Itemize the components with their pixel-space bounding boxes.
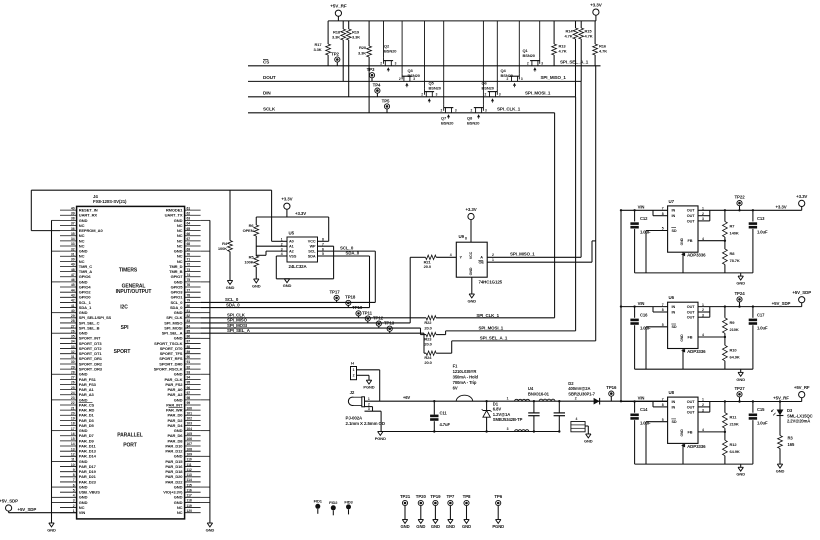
- svg-text:R8: R8: [730, 251, 736, 256]
- svg-text:28: 28: [71, 319, 75, 323]
- svg-text:43: 43: [71, 293, 75, 297]
- svg-text:3: 3: [368, 407, 370, 411]
- svg-text:29: 29: [71, 314, 75, 318]
- svg-text:100: 100: [187, 406, 193, 410]
- svg-text:33: 33: [71, 242, 75, 246]
- svg-text:119: 119: [187, 504, 192, 508]
- svg-text:3.3K: 3.3K: [313, 47, 321, 52]
- svg-text:SDA_0: SDA_0: [346, 251, 360, 256]
- svg-text:36: 36: [71, 227, 75, 231]
- svg-text:TP17: TP17: [329, 290, 340, 295]
- svg-text:109: 109: [187, 452, 193, 456]
- svg-text:23: 23: [71, 396, 75, 400]
- svg-text:32: 32: [71, 350, 75, 354]
- svg-text:4.7K: 4.7K: [559, 49, 567, 54]
- svg-text:C16: C16: [640, 312, 648, 317]
- svg-text:2: 2: [527, 62, 529, 66]
- svg-text:PJ-002A: PJ-002A: [346, 416, 364, 421]
- svg-text:J2: J2: [350, 390, 355, 395]
- svg-text:3.3K: 3.3K: [332, 35, 340, 40]
- svg-text:TP22: TP22: [734, 195, 745, 200]
- svg-text:21: 21: [71, 406, 75, 410]
- svg-text:R3: R3: [788, 436, 794, 441]
- svg-text:27: 27: [71, 324, 75, 328]
- svg-text:FB: FB: [688, 239, 693, 243]
- svg-text:BSN20: BSN20: [501, 73, 514, 78]
- svg-text:SPI_MOSI_1: SPI_MOSI_1: [479, 325, 504, 330]
- svg-text:11: 11: [71, 458, 75, 462]
- svg-text:1.0uF: 1.0uF: [640, 421, 651, 426]
- svg-text:44: 44: [71, 288, 75, 292]
- svg-text:2: 2: [492, 253, 494, 257]
- svg-text:GND: GND: [462, 524, 471, 529]
- svg-text:12: 12: [71, 452, 75, 456]
- svg-text:111: 111: [187, 463, 192, 467]
- svg-text:40: 40: [71, 206, 75, 210]
- svg-text:I2C: I2C: [120, 305, 128, 311]
- svg-text:3: 3: [499, 93, 501, 97]
- svg-text:WP: WP: [310, 245, 316, 249]
- svg-text:3.3K: 3.3K: [358, 50, 366, 55]
- svg-text:+3.3V: +3.3V: [295, 211, 306, 216]
- svg-text:4: 4: [450, 253, 452, 257]
- svg-text:NC: NC: [177, 510, 183, 515]
- svg-text:OUT: OUT: [687, 305, 695, 309]
- svg-text:10: 10: [71, 463, 75, 467]
- svg-text:GND: GND: [468, 298, 477, 303]
- svg-text:GND: GND: [431, 524, 440, 529]
- svg-text:GND: GND: [736, 377, 745, 382]
- svg-text:BSN20: BSN20: [467, 121, 480, 126]
- svg-text:8: 8: [73, 473, 75, 477]
- svg-text:SPI: SPI: [121, 325, 129, 331]
- svg-text:BSN20: BSN20: [408, 73, 421, 78]
- svg-text:2: 2: [73, 504, 75, 508]
- svg-text:U9: U9: [459, 234, 465, 239]
- svg-text:7: 7: [73, 478, 75, 482]
- svg-text:SCLK: SCLK: [263, 107, 276, 112]
- svg-text:39: 39: [71, 211, 75, 215]
- svg-text:89: 89: [187, 350, 191, 354]
- svg-text:GND: GND: [252, 283, 261, 288]
- svg-text:3.3K: 3.3K: [352, 35, 360, 40]
- svg-text:GND: GND: [736, 472, 745, 477]
- svg-text:37: 37: [71, 222, 75, 226]
- svg-text:1.0uF: 1.0uF: [640, 326, 651, 331]
- svg-text:106: 106: [187, 437, 193, 441]
- svg-text:TP2: TP2: [331, 52, 339, 57]
- svg-text:110: 110: [187, 458, 192, 462]
- svg-text:ADP3336: ADP3336: [687, 444, 706, 449]
- svg-text:IN: IN: [672, 214, 676, 218]
- svg-text:71: 71: [187, 258, 191, 262]
- svg-text:R11: R11: [730, 415, 738, 420]
- svg-text:VCC: VCC: [469, 251, 473, 259]
- svg-text:95: 95: [187, 381, 191, 385]
- svg-text:D3: D3: [787, 408, 793, 413]
- svg-text:2: 2: [471, 109, 473, 113]
- svg-text:FID2: FID2: [329, 500, 338, 505]
- svg-text:SPI_SEL_A: SPI_SEL_A: [227, 328, 251, 333]
- svg-text:SPI_SEL_A_1: SPI_SEL_A_1: [560, 59, 589, 64]
- svg-text:1.0uF: 1.0uF: [757, 421, 768, 426]
- svg-text:TP5: TP5: [382, 98, 390, 103]
- svg-text:74HC1G125: 74HC1G125: [479, 280, 503, 285]
- svg-text:65: 65: [187, 227, 191, 231]
- svg-text:2: 2: [399, 77, 401, 81]
- svg-text:D2: D2: [568, 381, 574, 386]
- svg-text:TP3: TP3: [367, 67, 375, 72]
- svg-text:VIN: VIN: [79, 510, 86, 515]
- svg-text:117: 117: [187, 494, 192, 498]
- svg-text:+5V_SDP: +5V_SDP: [792, 290, 811, 295]
- svg-text:SDA: SDA: [308, 254, 316, 258]
- svg-text:62: 62: [187, 211, 191, 215]
- svg-text:DIN: DIN: [263, 91, 271, 96]
- svg-text:D1: D1: [493, 401, 499, 406]
- svg-text:84: 84: [187, 324, 191, 328]
- svg-text:SCL: SCL: [308, 250, 316, 254]
- svg-text:41: 41: [71, 304, 75, 308]
- svg-text:SPI_CLK_1: SPI_CLK_1: [497, 106, 521, 111]
- svg-text:3: 3: [521, 77, 523, 81]
- svg-text:U6: U6: [669, 295, 675, 300]
- svg-text:PGND: PGND: [363, 385, 374, 390]
- svg-text:48: 48: [71, 268, 75, 272]
- svg-text:29: 29: [71, 365, 75, 369]
- svg-text:91: 91: [187, 360, 191, 364]
- svg-text:20.0: 20.0: [424, 264, 432, 269]
- svg-text:13: 13: [71, 447, 75, 451]
- svg-text:15: 15: [71, 437, 75, 441]
- svg-text:70: 70: [187, 252, 191, 256]
- svg-text:1.0uF: 1.0uF: [757, 326, 768, 331]
- svg-text:27: 27: [71, 376, 75, 380]
- svg-text:FB: FB: [688, 335, 693, 339]
- svg-text:32: 32: [71, 247, 75, 251]
- svg-text:2: 2: [440, 109, 442, 113]
- svg-text:GND: GND: [226, 285, 235, 290]
- svg-text:1: 1: [507, 397, 509, 401]
- svg-text:64: 64: [187, 222, 191, 226]
- svg-text:1: 1: [368, 397, 370, 401]
- svg-text:GND: GND: [776, 469, 785, 474]
- svg-text:FX8-120S-SV(21): FX8-120S-SV(21): [93, 199, 127, 204]
- svg-text:+3.3V: +3.3V: [796, 194, 807, 199]
- svg-text:BSN20: BSN20: [523, 53, 536, 58]
- svg-text:2: 2: [421, 93, 423, 97]
- svg-text:2: 2: [575, 397, 577, 401]
- svg-text:TIMERS: TIMERS: [119, 268, 138, 274]
- svg-text:IN: IN: [672, 209, 676, 213]
- svg-text:4: 4: [576, 417, 578, 421]
- svg-text:34: 34: [71, 340, 75, 344]
- svg-text:107: 107: [187, 442, 193, 446]
- svg-text:2.1mm X 2.5mm OD: 2.1mm X 2.5mm OD: [346, 421, 385, 426]
- svg-text:OUT: OUT: [687, 214, 695, 218]
- svg-text:17: 17: [71, 427, 75, 431]
- svg-text:3: 3: [507, 427, 509, 431]
- svg-text:SBR2U30P1-7: SBR2U30P1-7: [568, 392, 595, 397]
- svg-text:A: A: [480, 256, 483, 260]
- svg-text:47: 47: [71, 273, 75, 277]
- svg-text:5: 5: [73, 488, 75, 492]
- svg-text:61: 61: [187, 206, 191, 210]
- svg-text:49: 49: [71, 263, 75, 267]
- svg-text:TP24: TP24: [734, 291, 745, 296]
- svg-text:OUT: OUT: [687, 219, 695, 223]
- svg-text:3: 3: [541, 62, 543, 66]
- svg-text:115: 115: [187, 483, 192, 487]
- svg-text:GND: GND: [680, 334, 684, 342]
- svg-text:24: 24: [71, 391, 75, 395]
- svg-text:+3.3V: +3.3V: [590, 3, 603, 8]
- svg-text:SD: SD: [672, 325, 677, 329]
- svg-text:20.0: 20.0: [424, 342, 432, 347]
- svg-text:4.7uF: 4.7uF: [440, 422, 451, 427]
- svg-text:GND: GND: [206, 527, 215, 532]
- svg-text:19: 19: [71, 417, 75, 421]
- svg-text:700mA - Trip: 700mA - Trip: [453, 380, 477, 385]
- svg-text:SPI_MOSI_1: SPI_MOSI_1: [525, 90, 551, 95]
- svg-text:OUT: OUT: [687, 316, 695, 320]
- svg-text:VCC: VCC: [308, 240, 316, 244]
- svg-text:69: 69: [187, 247, 191, 251]
- svg-text:120: 120: [187, 509, 193, 513]
- svg-text:83: 83: [187, 319, 191, 323]
- svg-text:46: 46: [71, 278, 75, 282]
- svg-text:TP18: TP18: [345, 295, 356, 300]
- svg-text:C17: C17: [757, 312, 765, 317]
- svg-text:TP8: TP8: [463, 494, 471, 499]
- svg-text:+5V_RF: +5V_RF: [773, 396, 789, 401]
- svg-text:+5V_SDP: +5V_SDP: [0, 498, 18, 503]
- svg-text:A1: A1: [289, 245, 294, 249]
- svg-text:33: 33: [71, 345, 75, 349]
- svg-text:1.0uF: 1.0uF: [640, 229, 651, 234]
- svg-text:40: 40: [71, 309, 75, 313]
- svg-text:BSN20: BSN20: [429, 86, 442, 91]
- svg-text:R7: R7: [730, 224, 736, 229]
- svg-text:TP11: TP11: [362, 310, 373, 315]
- svg-text:BSN20: BSN20: [482, 86, 495, 91]
- svg-text:3: 3: [73, 499, 75, 503]
- svg-text:31: 31: [71, 355, 75, 359]
- svg-text:16: 16: [71, 432, 75, 436]
- svg-text:FB: FB: [688, 430, 693, 434]
- svg-text:104: 104: [187, 427, 193, 431]
- svg-text:94: 94: [187, 376, 191, 380]
- svg-text:GND: GND: [446, 524, 455, 529]
- svg-text:90: 90: [187, 355, 191, 359]
- svg-text:2: 2: [353, 374, 355, 378]
- svg-text:64.9K: 64.9K: [730, 449, 740, 454]
- svg-text:C15: C15: [757, 407, 765, 412]
- svg-text:87: 87: [187, 340, 191, 344]
- svg-text:U8: U8: [669, 390, 675, 395]
- svg-text:Y: Y: [460, 256, 463, 260]
- svg-text:9: 9: [73, 468, 75, 472]
- svg-text:210K: 210K: [730, 327, 739, 332]
- svg-text:CS: CS: [263, 60, 269, 65]
- svg-text:1210L035YR: 1210L035YR: [453, 369, 477, 374]
- svg-text:GND: GND: [584, 438, 593, 443]
- svg-text:45: 45: [71, 283, 75, 287]
- svg-text:C14: C14: [640, 407, 648, 412]
- svg-text:86: 86: [187, 335, 191, 339]
- svg-text:A2: A2: [289, 250, 294, 254]
- svg-text:SMBJ5342B-TP: SMBJ5342B-TP: [493, 417, 523, 422]
- svg-text:U4: U4: [528, 386, 534, 391]
- svg-text:+6V: +6V: [403, 395, 411, 400]
- svg-text:76: 76: [187, 283, 191, 287]
- svg-text:114: 114: [187, 478, 192, 482]
- svg-text:SPI_SEL_A_1: SPI_SEL_A_1: [480, 336, 508, 341]
- svg-text:U7: U7: [669, 199, 675, 204]
- svg-text:OUT: OUT: [687, 209, 695, 213]
- svg-text:42: 42: [71, 299, 75, 303]
- svg-text:U5: U5: [289, 231, 295, 236]
- svg-text:4.7K: 4.7K: [564, 34, 572, 39]
- svg-text:93: 93: [187, 370, 191, 374]
- svg-text:TP6: TP6: [494, 494, 502, 499]
- svg-text:66: 66: [187, 232, 191, 236]
- svg-text:4.7K: 4.7K: [585, 34, 593, 39]
- svg-text:80: 80: [187, 304, 191, 308]
- svg-text:35: 35: [71, 335, 75, 339]
- svg-text:IN: IN: [672, 400, 676, 404]
- svg-text:OPEN: OPEN: [243, 228, 254, 233]
- svg-text:108: 108: [187, 447, 193, 451]
- svg-text:VIN: VIN: [638, 205, 645, 210]
- svg-text:18: 18: [71, 422, 75, 426]
- svg-text:85: 85: [187, 329, 191, 333]
- svg-text:4: 4: [73, 494, 75, 498]
- svg-text:OUT: OUT: [687, 405, 695, 409]
- svg-text:73: 73: [187, 268, 191, 272]
- svg-text:TP21: TP21: [400, 494, 411, 499]
- svg-text:26: 26: [71, 329, 75, 333]
- svg-text:GND: GND: [469, 267, 473, 275]
- svg-text:VSS: VSS: [289, 254, 297, 258]
- svg-text:R10: R10: [730, 347, 738, 352]
- svg-text:R9: R9: [730, 320, 736, 325]
- svg-text:GND: GND: [680, 237, 684, 245]
- svg-text:+5V_RF: +5V_RF: [330, 4, 347, 9]
- svg-text:INPUT/OUTPUT: INPUT/OUTPUT: [116, 289, 152, 295]
- svg-text:SPORT: SPORT: [114, 349, 131, 355]
- svg-text:TP7: TP7: [447, 494, 455, 499]
- svg-text:81: 81: [187, 309, 191, 313]
- svg-text:165: 165: [788, 442, 795, 447]
- svg-text:1: 1: [492, 258, 494, 262]
- svg-text:20.0: 20.0: [424, 360, 432, 365]
- svg-text:75: 75: [187, 278, 191, 282]
- svg-text:BSN20: BSN20: [441, 121, 454, 126]
- svg-text:+5V_SDP: +5V_SDP: [18, 507, 37, 512]
- svg-text:VIN: VIN: [638, 301, 645, 306]
- svg-text:IN: IN: [672, 310, 676, 314]
- svg-text:GND: GND: [400, 524, 409, 529]
- svg-text:C11: C11: [440, 410, 448, 415]
- svg-text:FID3: FID3: [344, 499, 353, 504]
- svg-text:F1: F1: [453, 363, 458, 368]
- svg-text:2: 2: [368, 402, 370, 406]
- svg-text:24LC32A: 24LC32A: [289, 264, 308, 269]
- svg-text:74: 74: [187, 273, 191, 277]
- svg-text:88: 88: [187, 345, 191, 349]
- svg-text:22: 22: [71, 401, 75, 405]
- svg-text:64.9K: 64.9K: [730, 354, 740, 359]
- svg-text:SD: SD: [672, 420, 677, 424]
- svg-text:SML-LX15QC: SML-LX15QC: [787, 413, 813, 418]
- svg-text:2: 2: [380, 62, 382, 66]
- svg-text:101: 101: [187, 411, 193, 415]
- svg-text:TP19: TP19: [430, 494, 441, 499]
- svg-text:GND: GND: [680, 429, 684, 437]
- svg-text:3: 3: [395, 62, 397, 66]
- svg-text:FID1: FID1: [314, 499, 323, 504]
- svg-text:20.0: 20.0: [424, 325, 432, 330]
- svg-text:SDA_0: SDA_0: [226, 302, 240, 307]
- svg-text:6: 6: [73, 483, 75, 487]
- svg-text:SD: SD: [672, 229, 677, 233]
- svg-text:ADP3336: ADP3336: [687, 349, 706, 354]
- svg-text:1.0uF: 1.0uF: [757, 229, 768, 234]
- svg-text:SPI_CLK_1: SPI_CLK_1: [476, 313, 499, 318]
- svg-text:6V: 6V: [453, 386, 458, 391]
- svg-text:TP4: TP4: [373, 83, 381, 88]
- svg-text:31: 31: [71, 252, 75, 256]
- svg-text:3: 3: [455, 109, 457, 113]
- svg-text:26: 26: [71, 381, 75, 385]
- svg-text:3: 3: [436, 93, 438, 97]
- svg-text:35: 35: [71, 232, 75, 236]
- svg-text:30: 30: [71, 258, 75, 262]
- svg-text:105: 105: [187, 432, 193, 436]
- svg-text:GND: GND: [47, 527, 56, 532]
- svg-text:3: 3: [485, 109, 487, 113]
- svg-text:67: 67: [187, 237, 191, 241]
- svg-text:A0: A0: [289, 240, 294, 244]
- svg-text:OUT: OUT: [687, 310, 695, 314]
- svg-text:2.2V@20mA: 2.2V@20mA: [787, 419, 810, 424]
- svg-text:C12: C12: [640, 216, 648, 221]
- svg-text:BSN20: BSN20: [384, 49, 397, 54]
- svg-text:25: 25: [71, 386, 75, 390]
- svg-text:82: 82: [187, 314, 191, 318]
- svg-text:112: 112: [187, 468, 192, 472]
- svg-text:30: 30: [71, 360, 75, 364]
- svg-text:TP16: TP16: [606, 385, 617, 390]
- svg-text:116: 116: [187, 488, 192, 492]
- svg-text:140K: 140K: [730, 231, 739, 236]
- svg-text:97: 97: [187, 391, 191, 395]
- svg-text:79: 79: [187, 299, 191, 303]
- svg-text:SPI_MISO_1: SPI_MISO_1: [510, 252, 535, 257]
- svg-text:GND: GND: [736, 281, 745, 286]
- svg-text:TP20: TP20: [416, 494, 427, 499]
- svg-text:98: 98: [187, 396, 191, 400]
- svg-text:IN: IN: [672, 405, 676, 409]
- svg-text:99: 99: [187, 401, 191, 405]
- svg-text:77: 77: [187, 288, 191, 292]
- svg-text:100K: 100K: [244, 260, 253, 265]
- svg-text:R12: R12: [730, 442, 738, 447]
- svg-text:GND: GND: [283, 283, 292, 288]
- svg-text:TP13: TP13: [384, 321, 395, 326]
- svg-text:PGND: PGND: [492, 524, 504, 529]
